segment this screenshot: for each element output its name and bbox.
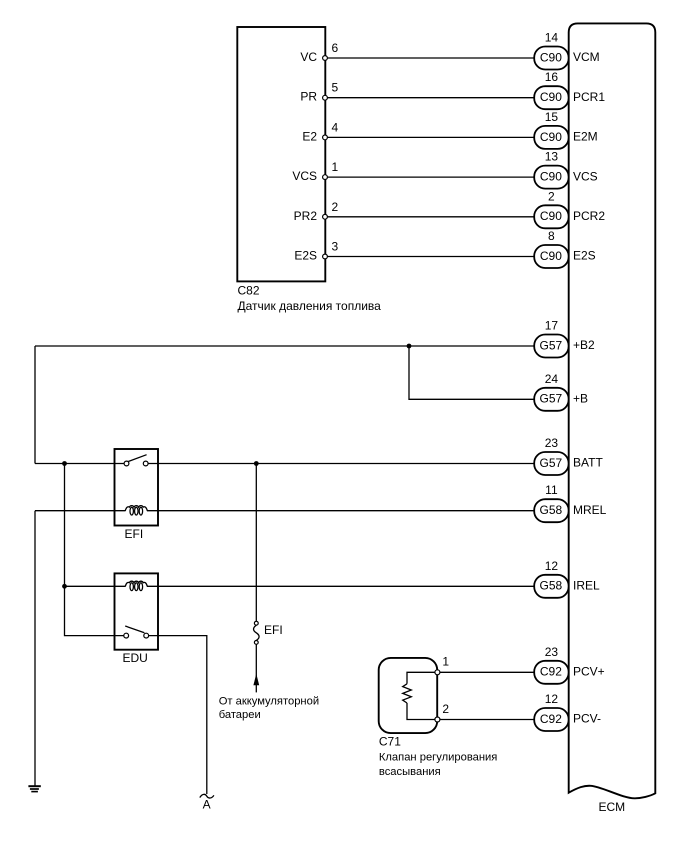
svg-text:2: 2	[332, 200, 339, 214]
svg-text:8: 8	[548, 229, 555, 243]
wire PR to PCR1	[327, 97, 534, 99]
fuse EFI bottom terminal	[254, 641, 258, 645]
svg-text:VCS: VCS	[573, 169, 598, 183]
svg-text:16: 16	[545, 70, 559, 84]
relay EFI coil	[125, 506, 147, 515]
svg-text:E2S: E2S	[294, 249, 317, 263]
svg-text:C92: C92	[540, 665, 562, 679]
svg-text:Датчик давления топлива: Датчик давления топлива	[238, 299, 382, 313]
junction node on +B2 wire	[407, 344, 412, 349]
svg-text:24: 24	[545, 372, 559, 386]
svg-text:PCV-: PCV-	[573, 712, 601, 726]
svg-text:BATT: BATT	[573, 456, 603, 470]
wire BATT row right of EFI switch	[148, 463, 534, 465]
resistor inside C71	[403, 684, 412, 703]
ECM connector oval G58 pin 11 (MREL)	[534, 499, 568, 522]
svg-text:C90: C90	[540, 50, 562, 64]
wire BATT row left of EFI switch	[35, 463, 124, 465]
svg-text:Клапан регулирования: Клапан регулирования	[379, 751, 497, 763]
wire VCS to VCS	[327, 176, 534, 178]
svg-text:ECM: ECM	[599, 800, 626, 814]
wire branch down to +B	[409, 346, 534, 399]
svg-text:EDU: EDU	[123, 651, 148, 665]
svg-text:C90: C90	[540, 249, 562, 263]
svg-text:13: 13	[545, 150, 559, 164]
svg-text:4: 4	[332, 120, 339, 134]
ECM connector oval C92 pin 12 (PCV-)	[534, 708, 568, 731]
svg-text:EFI: EFI	[264, 623, 283, 637]
svg-text:E2: E2	[302, 129, 317, 143]
relay EDU switch contact right	[144, 633, 149, 638]
svg-text:батареи: батареи	[219, 709, 261, 721]
ground symbol	[28, 786, 40, 791]
svg-text:всасывания: всасывания	[379, 766, 441, 778]
ECM connector oval G58 pin 12 (IREL)	[534, 575, 568, 598]
svg-text:PCR1: PCR1	[573, 90, 605, 104]
pin VCS (1) of C82	[292, 160, 338, 183]
wire left riser +B2 to BATT corner	[34, 346, 36, 464]
svg-text:VCM: VCM	[573, 50, 600, 64]
pin PR2 (2) of C82	[294, 200, 339, 223]
relay EFI switch contact left	[124, 461, 129, 466]
wire riser BATT junction to fuse EFI	[255, 464, 257, 622]
wire EDU switch to node A	[149, 636, 207, 794]
suction control valve C71 body	[379, 658, 438, 733]
svg-text:VC: VC	[300, 50, 317, 64]
svg-text:E2S: E2S	[573, 249, 596, 263]
svg-text:3: 3	[332, 240, 339, 254]
svg-text:2: 2	[442, 702, 449, 716]
wire PR2 to PCR2	[327, 216, 534, 218]
wire from battery to fuse	[255, 644, 257, 692]
svg-text:MREL: MREL	[573, 503, 607, 517]
relay EFI switch blade	[128, 455, 146, 462]
relay EFI box	[115, 449, 159, 526]
pin VC (6) of C82	[300, 41, 338, 64]
svg-text:5: 5	[332, 81, 339, 95]
svg-text:1: 1	[442, 654, 449, 668]
wire IREL row left of EDU coil	[65, 585, 126, 587]
svg-text:12: 12	[545, 692, 559, 706]
wire E2 to E2M	[327, 136, 534, 138]
svg-text:C82: C82	[238, 284, 260, 298]
svg-text:PR: PR	[300, 90, 317, 104]
svg-text:G57: G57	[540, 392, 563, 406]
pin E2 (4) of C82	[302, 120, 338, 143]
svg-text:12: 12	[545, 559, 559, 573]
fuse EFI top terminal	[254, 621, 258, 625]
relay EDU switch contact left	[124, 633, 129, 638]
wire MREL row right of EFI coil	[147, 510, 534, 512]
relay EDU switch blade	[125, 626, 144, 633]
svg-text:2: 2	[548, 189, 555, 203]
svg-text:E2M: E2M	[573, 130, 598, 144]
C71 internal wire pin1 side	[407, 672, 437, 684]
junction node IREL / riser	[62, 584, 67, 589]
svg-text:6: 6	[332, 41, 339, 55]
ECM connector oval C92 pin 23 (PCV+)	[534, 661, 568, 684]
svg-text:+B2: +B2	[573, 338, 595, 352]
svg-text:C90: C90	[540, 209, 562, 223]
wire +B2 row from left riser to ECM	[35, 345, 534, 347]
svg-text:15: 15	[545, 110, 559, 124]
node A break squiggle	[200, 794, 214, 798]
svg-text:G58: G58	[540, 579, 563, 593]
svg-text:PCV+: PCV+	[573, 665, 605, 679]
pin E2S (3) of C82	[294, 240, 338, 263]
ECM connector oval C90 pin 16 (PCR1)	[534, 86, 568, 109]
ECM connector oval G57 pin 24 (+B)	[534, 388, 568, 411]
ECM connector oval C90 pin 14 (VCM)	[534, 47, 568, 70]
svg-text:PCR2: PCR2	[573, 209, 605, 223]
svg-text:+B: +B	[573, 392, 588, 406]
ECM connector oval C90 pin 2 (PCR2)	[534, 205, 568, 228]
pin PR (5) of C82	[300, 81, 338, 104]
svg-text:IREL: IREL	[573, 579, 600, 593]
svg-text:PR2: PR2	[294, 209, 318, 223]
wire E2S to E2S	[327, 256, 534, 258]
fuel pressure sensor C82 box	[237, 27, 325, 281]
relay EDU coil	[125, 581, 147, 590]
ECM module body	[569, 23, 656, 798]
wire MREL corner down to ground	[34, 511, 36, 787]
svg-text:G57: G57	[540, 456, 563, 470]
svg-text:23: 23	[545, 436, 559, 450]
svg-text:1: 1	[332, 160, 339, 174]
ECM connector oval C90 pin 13 (VCS)	[534, 166, 568, 189]
ECM connector oval G57 pin 17 (+B2)	[534, 335, 568, 358]
junction node BATT / fuse branch	[254, 461, 259, 466]
pin 1 of C71	[435, 670, 440, 675]
svg-text:A: A	[203, 798, 211, 812]
wire riser BATT junction to EDU switch	[65, 464, 124, 636]
svg-text:G58: G58	[540, 503, 563, 517]
wire MREL row left of EFI coil	[35, 510, 125, 512]
svg-text:17: 17	[545, 319, 559, 333]
wire PCV+ row	[440, 671, 534, 673]
svg-text:C92: C92	[540, 712, 562, 726]
svg-text:C90: C90	[540, 170, 562, 184]
svg-text:От аккумуляторной: От аккумуляторной	[219, 696, 319, 708]
wire PCV- row	[440, 719, 534, 721]
svg-text:C90: C90	[540, 130, 562, 144]
svg-text:11: 11	[545, 483, 558, 497]
relay EFI switch contact right	[143, 461, 148, 466]
svg-text:VCS: VCS	[292, 169, 317, 183]
svg-text:C90: C90	[540, 90, 562, 104]
C71 internal wire pin2 side	[407, 703, 437, 720]
ECM connector oval C90 pin 8 (E2S)	[534, 245, 568, 268]
ECM connector oval G57 pin 23 (BATT)	[534, 452, 568, 475]
svg-text:14: 14	[545, 31, 559, 45]
pin 2 of C71	[435, 717, 440, 722]
wire IREL row right of EDU coil	[147, 585, 534, 587]
wire VC to VCM	[327, 57, 534, 59]
svg-text:EFI: EFI	[125, 527, 144, 541]
battery feed arrow	[253, 674, 259, 686]
fuse EFI element	[254, 625, 260, 640]
svg-text:C71: C71	[379, 735, 401, 749]
junction node BATT / EDU branch	[62, 461, 67, 466]
svg-text:G57: G57	[540, 338, 563, 352]
ECM connector oval C90 pin 15 (E2M)	[534, 126, 568, 149]
relay EDU box	[115, 573, 159, 649]
svg-text:23: 23	[545, 645, 559, 659]
